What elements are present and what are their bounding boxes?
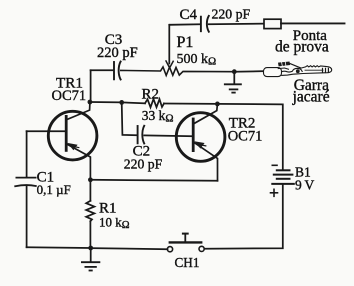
ground under P1 node — [225, 72, 241, 93]
node TR2 collector — [215, 102, 220, 107]
battery B1 — [271, 165, 315, 197]
node TR1 emitter — [88, 177, 93, 182]
wire C3 down to TR1 collector node — [90, 70, 92, 102]
switch CH1 — [167, 234, 204, 270]
wire R2 to TR2 collector node — [164, 103, 217, 105]
wire between collector node and C2 node — [90, 101, 122, 103]
svg-text:jacaré: jacaré — [292, 88, 330, 105]
svg-text:P1: P1 — [177, 34, 194, 51]
wire collector rail to battery — [217, 104, 282, 170]
svg-text:220 pF: 220 pF — [97, 45, 138, 61]
wire top from wiper corner to C4 — [169, 23, 200, 26]
resistor R2 — [142, 86, 174, 124]
probe tip (Ponta de prova) — [264, 19, 345, 56]
svg-text:9 V: 9 V — [295, 177, 314, 192]
node bottom ground — [88, 246, 93, 251]
alligator clip (Garra jacare) — [264, 62, 332, 106]
wire node to R2 — [122, 101, 145, 104]
node C2 tap — [119, 100, 124, 105]
transistor TR1 OC71 — [48, 75, 97, 180]
wire C2 branch from node — [122, 102, 137, 135]
svg-text:R2: R2 — [142, 86, 160, 102]
svg-text:OC71: OC71 — [52, 88, 87, 104]
svg-text:500 kΩ: 500 kΩ — [177, 52, 217, 68]
wire emitter rail — [90, 180, 217, 181]
capacitor C3 — [91, 32, 138, 80]
wire to alligator clip — [234, 70, 263, 73]
svg-text:C4: C4 — [180, 7, 198, 23]
capacitor C2 — [124, 126, 193, 172]
svg-text:220 pF: 220 pF — [212, 7, 251, 22]
svg-text:0,1 µF: 0,1 µF — [37, 182, 71, 197]
svg-text:220 pF: 220 pF — [124, 156, 163, 171]
capacitor C1 — [15, 131, 71, 247]
wire bottom rail to C1 — [27, 246, 91, 249]
svg-text:OC71: OC71 — [228, 129, 263, 145]
wire bottom rail switch to ground node — [91, 248, 168, 249]
wire C4 to probe — [209, 23, 264, 26]
svg-text:de prova: de prova — [275, 39, 329, 56]
node TR1 collector — [88, 100, 93, 105]
transistor TR2 OC71 — [176, 104, 262, 181]
potentiometer P1 — [121, 34, 235, 75]
svg-text:33 kΩ: 33 kΩ — [142, 108, 174, 125]
resistor R1 — [86, 180, 130, 248]
wire wiper vertical — [168, 25, 170, 64]
ground bottom — [82, 248, 100, 271]
capacitor C4 — [180, 7, 251, 32]
potentiometer P1 wiper arrow — [166, 61, 173, 68]
wire TR1 base lead — [27, 130, 66, 132]
wire battery down to bottom rail — [204, 184, 282, 249]
node junction P1/ground — [232, 69, 237, 74]
svg-text:10 kΩ: 10 kΩ — [99, 214, 130, 231]
svg-text:CH1: CH1 — [175, 255, 200, 270]
